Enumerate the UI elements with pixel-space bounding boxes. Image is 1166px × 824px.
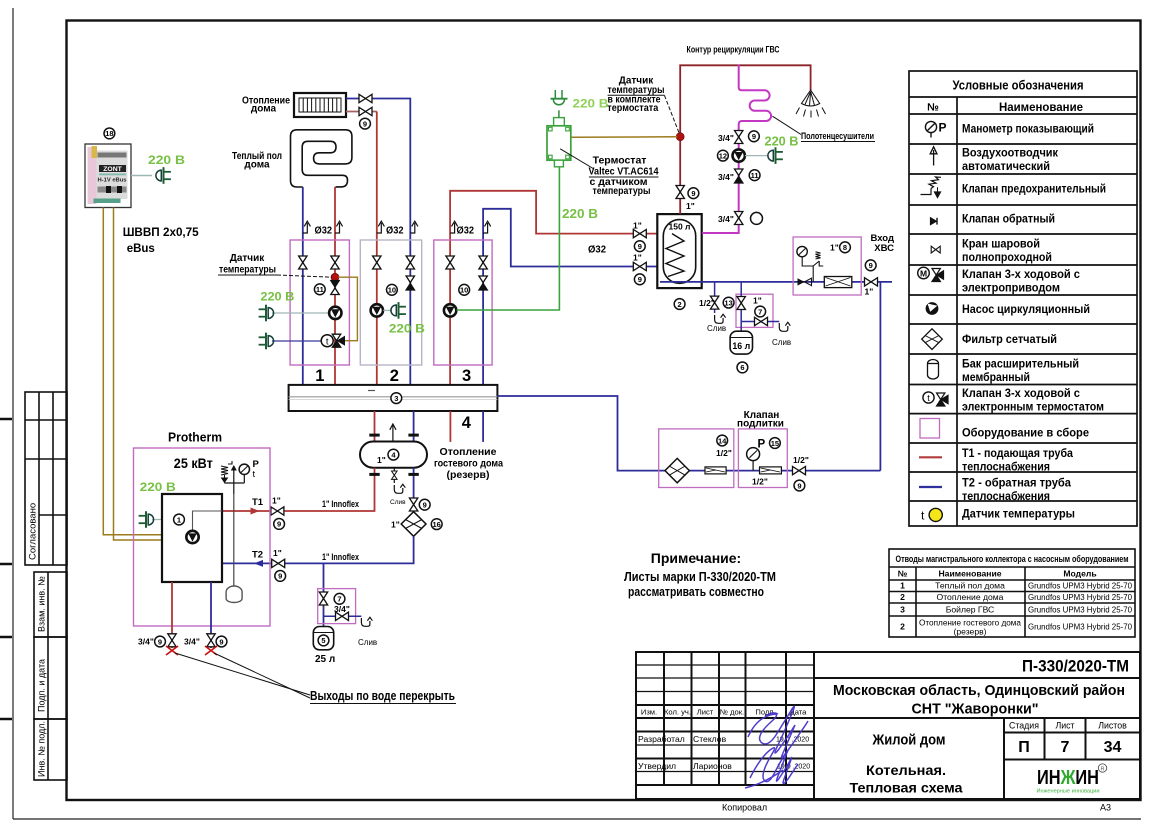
valve entry HVS [865,278,878,286]
svg-text:220 В: 220 В [148,153,185,167]
svg-text:34: 34 [1104,739,1122,756]
hydraulic separator 4 [360,442,427,468]
legend symbol: ball valve [931,246,940,253]
legend symbol: T1 pipe [919,456,942,458]
valve boiler drain blue [207,634,215,647]
svg-text:СНТ "Жаворонки": СНТ "Жаворонки" [912,701,1039,718]
node 6 label [737,362,748,373]
svg-text:Ø32: Ø32 [315,226,333,237]
svg-text:теплоснабжения: теплоснабжения [962,462,1050,474]
ball valves on six risers [299,256,307,269]
valve on radiator return line [359,107,372,115]
svg-text:Условные обозначения: Условные обозначения [953,79,1084,93]
svg-text:Стадия: Стадия [1009,721,1039,731]
svg-text:П: П [1018,739,1030,756]
node 15 label [770,438,781,449]
svg-text:Grundfos UPM3 Hybrid 25-70: Grundfos UPM3 Hybrid 25-70 [1028,605,1132,615]
svg-text:Слив: Слив [772,338,791,347]
svg-text:ХВС: ХВС [874,243,894,254]
leader sensor kit [664,95,679,134]
svg-text:№: № [927,102,939,114]
svg-text:9: 9 [277,520,281,529]
equipment box group 7 [736,294,773,327]
node 4 label [388,449,399,460]
svg-text:(резерв): (резерв) [446,469,489,481]
valve drain group 7 [755,317,768,325]
svg-text:1": 1" [633,253,642,263]
svg-text:Фильтр сетчатый: Фильтр сетчатый [962,334,1057,346]
wire pipe hydrosep bottom blue [413,468,415,498]
svg-text:1: 1 [177,515,181,524]
svg-text:электроприводом: электроприводом [962,283,1060,295]
wire drain line group 7 [741,321,779,323]
cartridge 14 [705,467,726,474]
valve drain 25l [336,612,349,620]
wire pipe DHW hot riser dark red [680,65,810,214]
leader sensor label [277,275,332,277]
wire pipe cold water vertical to makeup [879,282,881,471]
svg-text:1/2": 1/2" [699,298,715,308]
svg-text:220 В: 220 В [140,480,176,494]
valve boiler drain red [168,634,176,647]
wire pipe hydrosep return stub [413,411,415,442]
leader towel [773,116,802,134]
svg-text:Датчик температуры: Датчик температуры [962,509,1075,521]
svg-text:9: 9 [797,481,801,490]
220V plug circuit1 thermovalve [259,333,274,350]
svg-text:М: М [920,269,927,279]
air vent on hydrosep [390,424,396,442]
svg-text:Слив: Слив [390,499,406,506]
svg-text:дома: дома [244,160,270,171]
svg-text:7: 7 [337,595,341,604]
wire pipe towel serpentine magenta [702,65,771,233]
legend symbol: check valve [931,218,938,225]
220V plug boiler [139,511,154,528]
svg-text:Слив: Слив [358,638,377,647]
wire pipe circuit1 blue [302,187,304,385]
svg-text:eBus: eBus [127,243,155,255]
svg-text:9: 9 [278,572,282,581]
manometer 15 [747,448,760,471]
svg-text:Наименование: Наименование [999,102,1083,114]
svg-text:гостевого дома: гостевого дома [434,458,503,470]
wire pipe boiler drain blue [210,582,212,648]
svg-text:15: 15 [771,439,779,448]
wire sensor to 3way valve [338,277,357,341]
expansion tank 25l [313,627,333,650]
svg-text:Клапан 3-х ходовой с: Клапан 3-х ходовой с [962,269,1081,281]
svg-text:температуры: температуры [219,265,276,276]
svg-text:1" Innoflex: 1" Innoflex [322,499,359,509]
valve on radiator blue line [359,94,372,102]
boiler Protherm body [162,494,222,582]
svg-text:Теплый пол дома: Теплый пол дома [935,581,1005,591]
svg-text:9: 9 [752,132,756,141]
svg-text:220 В: 220 В [765,135,799,149]
svg-text:1": 1" [865,287,874,297]
wire ZONT to 220V plug [131,175,152,177]
equipment box strainer 14 [659,429,734,488]
svg-text:Лист: Лист [697,708,714,717]
controller ZONT unit [85,144,131,208]
svg-text:7: 7 [1061,739,1070,756]
svg-text:6: 6 [740,363,744,372]
svg-text:Согласовано: Согласовано [28,503,39,560]
wire pipe makeup from collector [497,396,880,471]
svg-text:1": 1" [377,455,386,465]
svg-text:рассматривать совместно: рассматривать совместно [628,585,764,599]
filter cartridge group 8 [824,277,852,288]
svg-text:3/4": 3/4" [718,172,734,182]
valve 13 [710,296,718,309]
svg-text:1": 1" [391,520,400,530]
svg-text:Котельная.: Котельная. [866,762,946,778]
svg-text:температуры: температуры [593,185,651,197]
wire pipe branch to 25l tank [323,563,325,626]
svg-text:Утвердил: Утвердил [638,761,676,771]
equipment box makeup 15 [738,429,787,488]
svg-text:Бойлер ГВС: Бойлер ГВС [946,605,995,615]
node 8 label [840,242,851,253]
equipment box circuit3 [434,240,492,365]
drain hook 25l [361,617,372,626]
svg-text:2: 2 [390,367,399,385]
220V plug for ZONT [156,167,171,184]
svg-text:3: 3 [394,394,398,403]
svg-text:Полотенцесушители: Полотенцесушители [801,131,874,141]
svg-text:электронным термостатом: электронным термостатом [962,402,1104,414]
check valve towel [735,169,743,183]
svg-text:Protherm: Protherm [168,430,222,445]
svg-text:полнопроходной: полнопроходной [962,252,1052,264]
node 2 label [674,299,685,310]
svg-text:Клапан обратный: Клапан обратный [962,214,1055,226]
svg-text:150 л: 150 л [669,222,691,232]
svg-text:1": 1" [753,296,762,306]
svg-text:Т2 - обратная труба: Т2 - обратная труба [962,478,1072,490]
wire plug2 to thermo valve [272,340,322,342]
svg-text:автоматический: автоматический [962,161,1050,173]
svg-text:П-330/2020-ТМ: П-330/2020-ТМ [1022,658,1129,676]
thermostat 220V plug [551,90,568,118]
pump circuit3 [444,304,456,316]
fold tick marks [0,419,12,719]
svg-text:Р: Р [758,439,766,451]
check valve circuit2 [406,276,414,290]
pump circuit2 [371,304,383,316]
svg-text:Воздухоотводчик: Воздухоотводчик [962,148,1058,160]
svg-text:3/4": 3/4" [184,637,200,647]
220V plug towel pump [768,147,783,164]
svg-text:мембранный: мембранный [962,372,1030,384]
flange marks upper [369,434,379,436]
svg-text:9: 9 [638,242,642,251]
svg-text:Листы марки П-330/2020-ТМ: Листы марки П-330/2020-ТМ [624,570,776,584]
svg-text:Кол. уч.: Кол. уч. [664,708,691,717]
valve towel bottom [735,212,743,225]
svg-text:5: 5 [321,636,325,645]
svg-text:Копировал: Копировал [722,803,767,813]
svg-text:25 кВт: 25 кВт [174,456,213,471]
svg-text:ZONT: ZONT [103,166,122,173]
node 7 label [755,306,766,317]
svg-text:3/4": 3/4" [138,637,154,647]
node 9 entry [865,260,876,271]
pump boiler internal [186,531,198,543]
node 18 label [104,128,115,139]
hydrosep drain valve [392,468,398,483]
floor heating coil [291,130,352,187]
thermostatic 3-way valve circuit1 [321,334,344,347]
check valve circuit1 [331,281,339,295]
wire pipe circuit3 blue to boiler [483,209,668,385]
svg-text:Ø32: Ø32 [386,226,404,237]
220V plug circuit1 pump [259,305,274,322]
wire pipe outlet4 blue stub [482,411,484,442]
node 3 label [391,393,402,404]
valve in 25l group [319,592,327,605]
wire pipe circuit1 red [334,187,336,385]
OTVODY TABLE [889,549,1135,637]
svg-text:9: 9 [869,261,873,270]
svg-text:№ док.: № док. [720,708,744,717]
legend symbol: strainer [922,329,943,350]
expansion tank 16l [730,331,752,354]
legend symbol: pressure gauge [925,121,936,137]
svg-text:Модель: Модель [1063,569,1096,579]
svg-text:Оборудование в сборе: Оборудование в сборе [962,428,1089,440]
svg-text:9: 9 [219,637,223,646]
svg-text:Контур рециркуляции ГВС: Контур рециркуляции ГВС [687,45,780,56]
svg-text:10: 10 [460,286,468,295]
strainer 14 [665,458,689,482]
wire pipe radiator return [346,111,377,113]
wire boiler internal [193,511,223,531]
svg-text:Ø32: Ø32 [457,226,475,237]
valve on T1 [271,507,284,515]
svg-text:дома: дома [251,104,277,115]
legend symbol: assembled equipment [920,419,940,439]
temperature sensor node DHW [676,133,684,141]
svg-text:25 л: 25 л [315,654,335,665]
node 7 label [334,593,345,604]
svg-text:теплоснабжения: теплоснабжения [962,491,1050,503]
svg-text:1/2": 1/2" [716,448,732,458]
T1 arrow [251,508,260,515]
svg-text:9: 9 [158,637,162,646]
svg-text:№: № [898,569,908,579]
wire pipe cold water main [660,281,892,283]
svg-text:9: 9 [363,119,367,128]
node 10 label circuit2 [387,284,398,295]
220V plug circuit2 [391,302,406,319]
svg-text:1/2": 1/2" [793,455,809,465]
svg-text:Кран шаровой: Кран шаровой [962,239,1040,251]
wire pump3 to thermostat green [457,167,560,310]
legend symbol: T2 pipe [919,486,942,488]
boiler expansion tank [233,494,235,586]
svg-text:Наименование: Наименование [938,569,1001,579]
svg-text:3: 3 [900,605,905,615]
svg-text:1" Innoflex: 1" Innoflex [322,552,359,562]
svg-text:Манометр показывающий: Манометр показывающий [962,124,1094,136]
svg-text:1/2": 1/2" [752,477,768,487]
check valve circuit3 [479,276,487,290]
valve makeup [793,466,806,474]
legend symbol: 3-way valve with thermostat [923,392,948,406]
svg-text:Grundfos UPM3 Hybrid 25-70: Grundfos UPM3 Hybrid 25-70 [1028,622,1132,632]
svg-text:t: t [253,469,256,480]
equipment box circuit1 [290,240,349,365]
valve on boiler return 1 inch [633,262,646,270]
svg-text:Разработал: Разработал [638,734,685,744]
svg-text:1": 1" [830,243,839,253]
svg-text:1": 1" [686,201,695,211]
svg-text:16 л: 16 л [732,341,750,351]
drain hook hydrosep [394,484,405,493]
shower head [796,90,826,118]
svg-text:220 В: 220 В [562,207,598,221]
collector [289,385,498,411]
svg-text:термостата: термостата [607,103,658,114]
wire eBus pair down to boiler [103,208,162,535]
svg-text:Т2: Т2 [252,550,263,561]
node 5 label [318,635,329,646]
wire drain line 25l [324,615,362,617]
svg-text:220 В: 220 В [260,290,294,304]
signature scribbles [745,706,808,788]
svg-text:Подп. и дата: Подп. и дата [37,659,47,712]
wire pipe circuit3 red to boiler [450,191,672,385]
radiator [294,93,346,117]
svg-text:1": 1" [633,221,642,231]
svg-text:1: 1 [315,367,324,385]
TITLE BLOCK [636,652,1140,799]
wire pipe hydrosep bottom red [222,468,375,511]
valve 9 on hydrosep return [409,498,417,511]
svg-text:Изм.: Изм. [641,708,657,717]
svg-text:Р: Р [939,121,947,135]
safety valve symbol [221,461,232,482]
valve towel top [735,131,743,144]
svg-text:ШВВП 2x0,75: ШВВП 2x0,75 [123,225,199,239]
valve on T2 [272,559,285,567]
svg-text:11: 11 [751,171,759,180]
svg-text:1": 1" [273,548,282,558]
equipment box 25l group [318,589,356,624]
legend symbol: expansion tank [928,360,939,380]
check valve group 8 [798,278,812,285]
svg-text:(резерв): (резерв) [953,627,986,637]
svg-text:7: 7 [758,307,762,316]
svg-text:Стеклов: Стеклов [693,734,727,744]
svg-text:4: 4 [462,414,472,432]
wire pump2 to plug [383,309,392,311]
svg-text:2: 2 [900,622,905,632]
strainer 16 [401,512,426,537]
legend symbol: safety valve [921,177,942,198]
svg-text:9: 9 [691,189,695,198]
svg-text:11: 11 [316,285,324,294]
air vents on collector risers [303,221,311,233]
valve group 7 [737,297,745,310]
svg-text:Взам. инв. №: Взам. инв. № [37,576,47,632]
node 16 label [431,519,442,530]
svg-text:ИНЖИН: ИНЖИН [1037,767,1099,789]
svg-text:Слив: Слив [707,324,726,333]
valve on DHW riser [676,186,684,199]
svg-text:220 В: 220 В [389,322,425,336]
pump circuit1 [329,307,341,319]
wire pipe branch group 7 [740,282,742,331]
svg-text:t: t [326,337,329,348]
leader lines to note [175,653,310,695]
wire pipe branch drain 13 [714,282,716,313]
svg-text:1": 1" [272,496,281,506]
cartridge 15 [760,467,782,474]
wire pipe radiator supply blue [346,99,410,385]
thermostat Valtec [547,118,571,167]
node 9 at radiator valves [360,118,371,129]
x mark blue outlet [205,646,217,655]
DHW boiler 150l [657,214,701,288]
svg-text:1: 1 [900,581,905,591]
drain hook group 7 [779,322,790,331]
svg-text:Выходы по воде перекрыть: Выходы по воде перекрыть [310,689,455,703]
svg-text:Примечание:: Примечание: [651,550,741,566]
manometer on boiler [239,464,249,483]
leader thermostat [560,149,594,169]
svg-text:10: 10 [388,286,396,295]
wire plug to boiler [152,519,162,521]
T2 arrow [254,560,263,567]
wire pipe outlet4 red stub [449,411,451,442]
svg-text:Листов: Листов [1098,721,1127,731]
left margin table: approval block [25,392,67,565]
svg-text:Инв. № подл.: Инв. № подл. [37,721,47,777]
legend symbol: pump [926,302,939,315]
svg-text:Жилой дом: Жилой дом [872,733,946,749]
svg-text:220 В: 220 В [573,97,609,111]
svg-text:2: 2 [678,300,682,309]
svg-text:Бак расширительный: Бак расширительный [962,359,1079,371]
svg-text:14: 14 [718,436,727,445]
svg-text:3: 3 [462,367,471,385]
svg-text:Т1: Т1 [252,497,264,508]
node 14 label [717,435,728,446]
svg-text:9: 9 [638,275,642,284]
wire pipe T2 return to boiler [222,536,414,563]
wire plug1 to pump1 [272,312,329,314]
svg-text:Датчик: Датчик [230,253,266,264]
svg-text:Тепловая схема: Тепловая схема [850,780,963,796]
svg-text:Т1 - подающая труба: Т1 - подающая труба [962,448,1074,460]
pressure reducer group 8 [797,246,823,281]
node 1 label [174,514,185,525]
svg-text:Насос циркуляционный: Насос циркуляционный [962,304,1090,316]
svg-text:16: 16 [433,520,441,529]
equipment box Protherm [134,448,271,626]
svg-text:Лист: Лист [1055,721,1074,731]
svg-text:3/4": 3/4" [718,133,734,143]
svg-text:Инженерные инновации: Инженерные инновации [1037,789,1100,795]
node 9 makeup [794,480,805,491]
svg-text:Grundfos UPM3 Hybrid 25-70: Grundfos UPM3 Hybrid 25-70 [1028,581,1132,591]
svg-text:8: 8 [843,243,847,252]
svg-text:Отопление: Отопление [440,446,497,458]
safety group riser [233,466,235,494]
